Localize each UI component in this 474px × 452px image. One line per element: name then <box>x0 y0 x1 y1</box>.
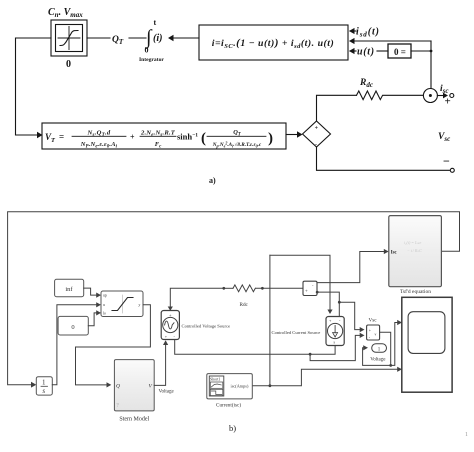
svg-text:i₁(t) = Iₛₖe: i₁(t) = Iₛₖe <box>404 240 422 245</box>
svg-text:+: + <box>445 96 451 108</box>
wire 1/s out to u port <box>52 305 96 385</box>
svg-text:up: up <box>103 294 107 298</box>
svg-text:1: 1 <box>42 379 46 387</box>
Stern Model block <box>114 360 154 411</box>
wire current meas to CCS and Vsc <box>316 291 319 294</box>
wire 0 to lo port <box>88 313 96 326</box>
equation box i(t) <box>199 25 348 60</box>
wire current meas i out to Tsfd input <box>317 252 384 283</box>
controlled voltage source block <box>161 311 179 340</box>
voltage measurement block Vsc <box>367 325 380 340</box>
svg-text:lo: lo <box>103 311 106 315</box>
svg-text:−: − <box>443 154 450 168</box>
svg-text:isc(Amps): isc(Amps) <box>231 384 249 389</box>
svg-text:1: 1 <box>465 432 468 438</box>
constant block 0 <box>58 316 88 335</box>
current display block Current(isc) <box>207 374 253 399</box>
svg-text:Current(isc): Current(isc) <box>216 402 241 409</box>
input u(t) <box>350 50 356 52</box>
svg-text:(: ( <box>201 131 206 147</box>
wire node to middle input <box>350 40 431 42</box>
VT equation box <box>42 123 286 149</box>
wire Vsc signal to scope input1 <box>391 323 398 366</box>
svg-text:− t / RₖC: − t / RₖC <box>407 248 422 253</box>
integrator block 1/s <box>36 377 52 395</box>
svg-text:Tsf'd equation: Tsf'd equation <box>400 288 431 295</box>
svg-text:b): b) <box>229 423 236 433</box>
svg-text:Q: Q <box>116 384 120 390</box>
svg-text:Vsc: Vsc <box>369 317 378 323</box>
svg-text:Stern Model: Stern Model <box>119 417 149 423</box>
svg-text:Short1: Short1 <box>210 378 220 382</box>
controlled current source block <box>326 317 344 346</box>
svg-text:+: + <box>305 290 308 295</box>
svg-text:y: y <box>138 303 141 307</box>
svg-text:a): a) <box>209 176 216 185</box>
isc arrow and terminal <box>437 95 444 97</box>
svg-text:0 =: 0 = <box>394 47 406 57</box>
svg-text:Voltage: Voltage <box>370 358 386 363</box>
svg-text:Integrator: Integrator <box>139 57 164 63</box>
junction <box>430 50 433 53</box>
wire control signal into CCS <box>270 255 330 310</box>
svg-text:Controlled Voltage Source: Controlled Voltage Source <box>182 323 231 328</box>
svg-text:0: 0 <box>145 46 149 55</box>
wire saturation out to Stern Q <box>76 305 151 385</box>
resistor Rdc (a) <box>357 91 424 100</box>
wire QT <box>87 37 110 39</box>
svg-text:Rdc: Rdc <box>240 302 249 308</box>
svg-text:+: + <box>130 133 135 142</box>
wire current display to scope input2 <box>252 369 397 385</box>
wire VT to diamond <box>286 134 297 136</box>
block 0= <box>388 44 411 58</box>
wire CVS minus to CCS bottom <box>175 340 335 355</box>
wire feedback from saturation input to VT box <box>16 38 52 135</box>
wire inf to up port <box>84 288 97 295</box>
wire Vsc out down <box>380 332 391 365</box>
svg-text:+: + <box>315 126 319 132</box>
wire eq1 to integrator <box>172 37 199 39</box>
scope block <box>402 297 452 392</box>
wire Stern V to CVS s input <box>154 345 165 386</box>
wire resistor to current measurement <box>256 287 304 289</box>
wire diamond bottom to terminal <box>317 147 450 170</box>
wire feedback Tsfd output loop to 1/s <box>8 212 460 385</box>
svg-text:Controlled Current Source: Controlled Current Source <box>272 330 321 335</box>
svg-text:t: t <box>154 18 157 27</box>
svg-text:(i): (i) <box>153 33 162 44</box>
svg-text:=: = <box>59 132 64 142</box>
svg-text:isd(t): isd(t) <box>356 27 380 39</box>
svg-text:Isc: Isc <box>391 250 398 255</box>
resistor Rdc (b) <box>233 285 255 292</box>
svg-text:Voltage: Voltage <box>159 389 175 394</box>
Tsfd equation block <box>389 216 442 287</box>
diamond controlled source <box>303 121 331 147</box>
long vertical signal wire <box>269 255 271 385</box>
wire CVS top to Rdc line <box>170 288 224 310</box>
svg-text:Np.Ne2.Ai.√8.R.T.ε.ε0.c: Np.Ne2.Ai.√8.R.T.ε.ε0.c <box>212 140 262 148</box>
input isd(t) <box>350 30 356 32</box>
saturation block <box>51 20 87 56</box>
saturation dynamic block <box>101 291 143 317</box>
svg-text:u(t): u(t) <box>357 47 375 58</box>
constant block inf <box>55 279 84 296</box>
wire to Vsc minus port <box>310 335 360 360</box>
svg-text:): ) <box>268 131 273 147</box>
wire diamond top to resistor <box>317 95 357 121</box>
current measurement block <box>303 281 317 295</box>
wire to Voltage display <box>363 348 391 366</box>
svg-text:0: 0 <box>66 59 71 70</box>
current node circle isc <box>423 89 437 103</box>
integrator symbol <box>139 18 164 63</box>
display block Voltage <box>372 344 387 352</box>
svg-text:0: 0 <box>71 324 74 331</box>
svg-text:inf: inf <box>65 286 73 293</box>
svg-text:s: s <box>42 387 45 395</box>
svg-text:u: u <box>103 303 105 307</box>
